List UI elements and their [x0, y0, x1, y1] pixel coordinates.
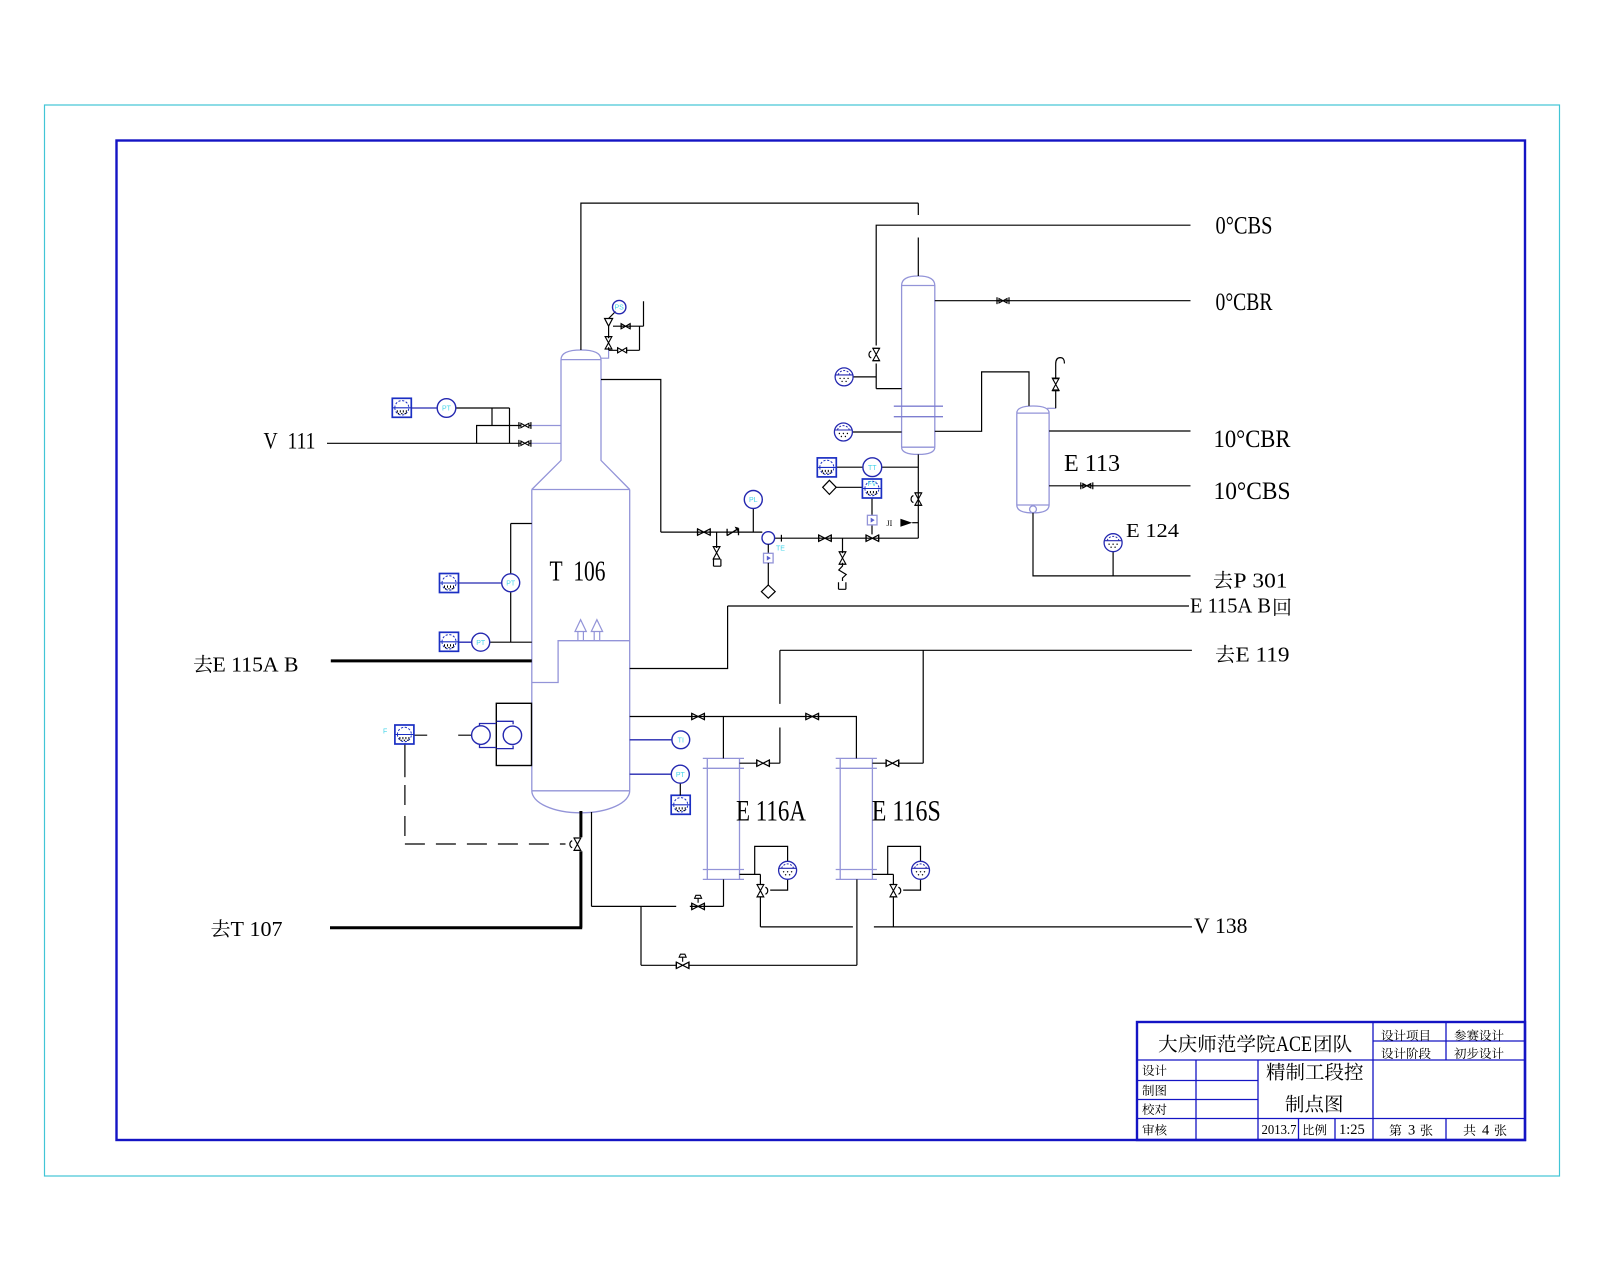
svg-text:E 115A B: E 115A B: [213, 653, 299, 677]
inner blue border frame: [117, 141, 1526, 1141]
drain funnel right: [839, 582, 846, 589]
level signal tubing solid part: [404, 743, 406, 777]
thick line: column bottoms to T 107: [330, 811, 582, 928]
gauge instrument TI brine supply: [835, 368, 853, 386]
instrument TT condenser outlet: [863, 458, 882, 477]
instrument PI reflux: [744, 491, 762, 509]
valve E116S inlet gate: [886, 760, 899, 766]
FV actuator (transmitter square): [867, 515, 877, 525]
instrument square recorder PR lower: [440, 632, 459, 651]
PI stem: [752, 509, 754, 533]
E113 bottom outlet to P301: [1033, 513, 1191, 576]
E116S outlet nozzle + TI loop: [872, 846, 920, 890]
valve vent gate on dome stub: [605, 337, 612, 349]
E116A inlet nozzle line: [740, 762, 780, 764]
TE transmitter square: [764, 553, 774, 563]
globe valve on reboiler line: [692, 903, 705, 909]
condenser tube-bundle lines: [894, 406, 943, 417]
0CBS block valve: [873, 348, 880, 360]
valve E116 supply gate at column: [692, 713, 705, 719]
title block row: 校对: [1142, 1103, 1154, 1115]
vessel E 113: [1017, 406, 1049, 513]
svg-text:F: F: [383, 729, 387, 736]
inline element TE: [762, 532, 775, 545]
pump suction lines: [414, 734, 472, 736]
instrument square FIC: [862, 479, 881, 498]
svg-text:PL: PL: [749, 497, 758, 504]
instrument PT lower column: [472, 633, 490, 651]
0C BR brine return line: [935, 300, 1191, 302]
PS diagonal: [609, 312, 616, 319]
reboiler circulation line: [592, 812, 724, 906]
instrument square recorder FR pump: [395, 725, 414, 744]
instrument square recorder PR column bottom: [671, 795, 690, 814]
svg-text:ACE: ACE: [1276, 1031, 1312, 1056]
10C BR line from E113: [1049, 430, 1190, 432]
E116A drain leg: [759, 874, 761, 927]
analysis diamond FIC: [823, 480, 837, 494]
svg-text:E 113: E 113: [1064, 451, 1120, 477]
svg-text:E 115A B: E 115A B: [1190, 594, 1271, 618]
condenser vessel (overhead): [902, 276, 935, 454]
valve E116A inlet gate: [757, 760, 770, 766]
FV square to control valve stem: [871, 498, 873, 535]
svg-text:10°CBS: 10°CBS: [1214, 478, 1291, 505]
valve manifold gate 1: [698, 529, 711, 535]
E113 gooseneck vent: [1053, 358, 1065, 409]
svg-text:E 119: E 119: [1236, 643, 1290, 667]
svg-text:FV: FV: [868, 481, 877, 488]
gauge instrument TI E116A: [779, 861, 797, 879]
svg-text:3: 3: [1408, 1123, 1415, 1139]
V 138 header: [760, 926, 1192, 928]
exchanger E 116S: [836, 758, 877, 879]
pump pair casing: [496, 703, 531, 765]
valve right drain gate: [839, 552, 846, 564]
globe valve on bottom drain: [676, 962, 689, 968]
flange tick on manifold: [780, 535, 782, 542]
svg-text:E 116S: E 116S: [872, 795, 941, 828]
svg-text:T 106: T 106: [550, 557, 606, 588]
thick line: to E 115A B: [331, 659, 532, 662]
drain leg right of manifold: [842, 538, 844, 553]
svg-text:P 301: P 301: [1234, 569, 1288, 593]
svg-text:4: 4: [1482, 1123, 1490, 1139]
title block: 共 4 张: [1464, 1124, 1476, 1136]
angle relief valve: [605, 319, 613, 327]
E116S drain valve: [890, 885, 897, 897]
E 124 stem: [1112, 551, 1114, 576]
valve feed upper gate: [519, 422, 531, 429]
E 113 vent stub: [1047, 407, 1056, 409]
condenser outlet valve: [915, 493, 922, 505]
swing check valve: [727, 528, 738, 536]
svg-text:0°CBR: 0°CBR: [1216, 289, 1273, 316]
bottom drain header: [641, 879, 857, 965]
to E 119 header: [780, 650, 1192, 763]
svg-text:TE: TE: [776, 546, 785, 553]
instrument square recorder PR (feed): [392, 398, 411, 417]
title block: 参赛设计: [1454, 1030, 1466, 1041]
svg-text:TI: TI: [678, 737, 684, 744]
exchanger E 116A: [703, 758, 744, 879]
title block row: 审核: [1143, 1124, 1155, 1136]
T 106 dome vent stub: [601, 348, 609, 358]
valve vent gate lower: [618, 348, 627, 353]
svg-text:JI: JI: [887, 519, 893, 528]
bottoms LV control valve: [574, 838, 581, 850]
condenser TI tap: [852, 431, 901, 433]
gauge instrument E 124 gauge: [1104, 534, 1122, 552]
PS vent piping: [609, 301, 644, 350]
diamond to FV square line: [836, 486, 862, 488]
title block row: 设计: [1143, 1065, 1155, 1076]
svg-text:2013.7: 2013.7: [1262, 1122, 1297, 1137]
title block: 第 3 张: [1389, 1124, 1401, 1136]
svg-text:TT: TT: [868, 465, 877, 472]
column mid nozzle at PT: [490, 524, 532, 643]
svg-text:V 111: V 111: [264, 429, 316, 454]
T 106 chimney arrows on tray: [575, 620, 603, 641]
label 去P 301: [1214, 571, 1232, 589]
0C BS brine supply line: [876, 225, 1190, 388]
TT to square line: [836, 466, 863, 468]
overhead vapour line T106 to condenser: [581, 203, 918, 350]
E116S drain leg: [892, 874, 894, 927]
svg-text:0°CBS: 0°CBS: [1216, 212, 1273, 239]
instrument square recorder PR mid: [440, 574, 459, 593]
valve left drain gate: [713, 547, 720, 559]
10C BS line from E113: [1049, 485, 1190, 487]
valve vent gate upper: [621, 324, 630, 329]
title block: 设计项目: [1382, 1030, 1394, 1041]
specialty flag stub: [912, 522, 918, 524]
E116A bottom outlet: [723, 879, 725, 906]
instrument TI column bottom: [672, 731, 690, 749]
instrument PS column top: [613, 300, 626, 313]
V 111 feed line: [327, 408, 519, 443]
control valve FV: [866, 535, 879, 541]
outer cyan border frame: [45, 105, 1560, 1176]
valve 10CBS gate: [1081, 482, 1093, 489]
E116 vapour supply from column: [630, 717, 857, 759]
E113 vent valve: [1052, 378, 1059, 390]
svg-text:PT: PT: [476, 640, 486, 647]
title block: company name 大庆师范学院ACE团队: [1159, 1035, 1177, 1053]
analysis diamond lower: [761, 585, 775, 598]
T 106 feed nozzle stubs: [531, 426, 561, 444]
title block: 初步设计: [1454, 1048, 1466, 1059]
valve 0CBR gate: [997, 297, 1009, 304]
svg-text:PT: PT: [442, 406, 452, 413]
instrument PT mid column: [502, 574, 520, 592]
signal lines: [411, 408, 672, 774]
E116A drain valve: [757, 885, 764, 897]
svg-text:E 124: E 124: [1126, 520, 1179, 542]
0CBS TI tap: [853, 376, 876, 378]
svg-text:PT: PT: [506, 580, 516, 587]
instrument square recorder TR condenser: [817, 458, 836, 477]
label 去E 119: [1216, 645, 1234, 663]
TT tap on condenser outlet: [882, 466, 919, 468]
gauge instrument TI condenser: [834, 423, 852, 441]
E 115A B return header: [630, 606, 1189, 669]
condenser bottom outlet: [917, 454, 919, 538]
instrument PT column bottom: [671, 765, 689, 783]
instrument PT feed: [437, 399, 456, 418]
label 去E 115A B: [194, 655, 212, 673]
gauge instrument TI E116S: [912, 861, 930, 879]
svg-text:E 116A: E 116A: [736, 795, 806, 828]
valve E116 supply gate 2: [806, 713, 819, 719]
E116A outlet nozzle + TI loop: [740, 846, 788, 890]
reflux line condenser to column: [601, 380, 661, 533]
column T 106 vessel outline: [532, 350, 630, 813]
svg-text:10°CBR: 10°CBR: [1214, 426, 1291, 453]
condenser brine outlet to E113 top: [935, 372, 1029, 431]
svg-text:T 107: T 107: [231, 917, 283, 941]
svg-text:V 138: V 138: [1194, 913, 1248, 938]
condensate manifold left segment: [661, 531, 763, 533]
drain zigzag: [839, 563, 846, 581]
pump impeller circles: [472, 721, 522, 748]
specialty item flag: [900, 519, 912, 527]
svg-text:PT: PT: [676, 772, 686, 779]
title block grid: [1137, 1022, 1525, 1140]
svg-text:PS: PS: [615, 305, 625, 312]
E116S inlet nozzle line: [872, 650, 923, 763]
title block: 比例 1:25: [1304, 1124, 1315, 1135]
valve manifold gate 2: [819, 535, 832, 541]
label 去T 107: [211, 919, 229, 937]
title block: 设计阶段: [1382, 1048, 1394, 1059]
drain funnel left: [714, 559, 721, 566]
svg-text:1:25: 1:25: [1339, 1122, 1365, 1138]
dashed level-signal line: [405, 785, 566, 844]
drain leg left of manifold: [716, 532, 718, 548]
condensate manifold right segment: [774, 537, 918, 539]
title block row: 制图: [1142, 1085, 1153, 1096]
valve feed lower gate: [519, 440, 531, 447]
drawing title 精制工段控制点图: [1267, 1063, 1285, 1081]
